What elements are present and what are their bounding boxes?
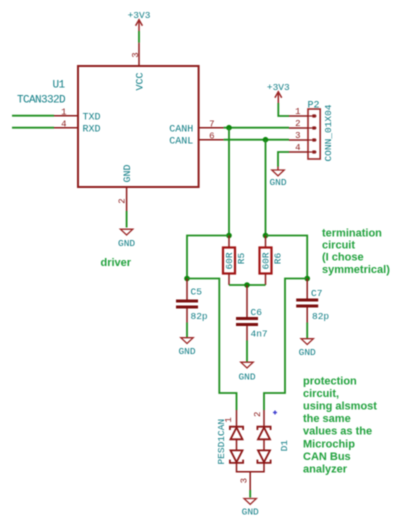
svg-text:C7: C7 (311, 288, 322, 299)
diode D1 PESD1CAN pin 1 lead (224, 410, 237, 426)
svg-text:TXD: TXD (83, 112, 101, 123)
svg-text:the same: the same (303, 413, 351, 425)
wire C5 to GND (186, 323, 188, 338)
power +3V3 (VCC) (128, 10, 151, 31)
svg-text:2: 2 (117, 198, 127, 203)
svg-text:GND: GND (238, 371, 255, 382)
pin 7 CANH (169, 120, 223, 136)
svg-text:CANH: CANH (169, 124, 193, 135)
P2 pin 2 (289, 119, 317, 130)
wire term top right (266, 236, 308, 279)
svg-text:GND: GND (118, 238, 135, 249)
wire C7 to GND (306, 323, 308, 339)
ground C5 (178, 338, 195, 358)
capacitor C5 (176, 279, 208, 323)
pin 3 VCC (131, 43, 147, 91)
svg-text:VCC: VCC (136, 72, 147, 90)
svg-text:CONN_01X04: CONN_01X04 (323, 104, 334, 161)
svg-text:(I chose: (I chose (322, 252, 364, 264)
svg-text:82p: 82p (312, 311, 329, 322)
wire to protection right (264, 279, 307, 411)
P2 pin 3 (289, 131, 317, 142)
ground C7 (299, 339, 316, 359)
svg-text:60R: 60R (224, 252, 235, 269)
svg-text:7: 7 (209, 120, 214, 130)
diode D1 left bottom (zener, cathode down) (230, 450, 243, 463)
svg-text:CANL: CANL (169, 136, 193, 147)
svg-text:analyzer: analyzer (303, 464, 348, 476)
svg-text:2: 2 (253, 412, 263, 417)
label PESD1CAN (216, 419, 227, 465)
svg-text:P2: P2 (308, 100, 320, 111)
svg-text:driver: driver (101, 257, 132, 269)
wire CANH drop (228, 128, 230, 236)
svg-text:protection: protection (303, 375, 357, 387)
svg-text:3: 3 (295, 131, 300, 141)
svg-text:using alsmost: using alsmost (303, 401, 377, 413)
pin 6 CANL (169, 132, 223, 148)
wire D1 right middle (263, 439, 265, 450)
svg-text:2: 2 (295, 119, 300, 129)
junction term right top (263, 233, 269, 239)
svg-text:symmetrical): symmetrical) (322, 264, 390, 276)
svg-text:GND: GND (299, 347, 316, 358)
resistor R6 (260, 236, 284, 286)
junction CANH (226, 125, 232, 131)
svg-text:GND: GND (242, 506, 259, 517)
wire TXD from left (12, 115, 54, 117)
ground U1 (118, 229, 135, 249)
svg-text:values as the: values as the (303, 426, 372, 438)
P2 pin 1 (289, 107, 317, 118)
svg-text:U1: U1 (52, 80, 65, 92)
junction term left top (226, 233, 232, 239)
annotation termination (322, 227, 390, 276)
capacitor C6 (236, 285, 268, 341)
diode D1 left top (zener, cathode up) (230, 427, 243, 440)
svg-text:C5: C5 (191, 287, 203, 298)
svg-text:R6: R6 (272, 253, 283, 265)
svg-text:GND: GND (123, 164, 134, 182)
svg-text:Microchip: Microchip (303, 438, 355, 450)
wire term top left (187, 236, 229, 279)
svg-text:R5: R5 (236, 253, 247, 265)
svg-text:termination: termination (322, 227, 382, 239)
svg-text:1: 1 (61, 108, 66, 118)
IC U1 TCAN332D body (17, 66, 199, 187)
svg-text:60R: 60R (261, 252, 272, 269)
wire D1 left middle (236, 439, 238, 450)
wire C6 to GND (246, 341, 248, 362)
wire D1 to GND (249, 490, 251, 498)
svg-text:circuit,: circuit, (303, 388, 339, 400)
wire CANL to P2 (224, 139, 289, 141)
svg-text:CAN Bus: CAN Bus (303, 451, 351, 463)
annotation driver (101, 257, 132, 269)
diode D1 pin 3 lead (239, 472, 250, 490)
diode D1 PESD1CAN pin 2 lead (253, 410, 264, 426)
capacitor C7 (296, 279, 329, 323)
P2 pin 4 (289, 143, 317, 154)
junction CANL (263, 137, 269, 143)
svg-text:TCAN332D: TCAN332D (17, 95, 66, 107)
svg-text:4n7: 4n7 (251, 328, 268, 339)
junction C5 top (184, 276, 190, 282)
wire VCC (138, 31, 140, 43)
wire R5-R6 bottoms (229, 284, 266, 286)
resistor R5 (223, 236, 247, 286)
svg-text:82p: 82p (191, 311, 208, 322)
svg-text:3: 3 (131, 52, 141, 57)
diode D1 right top (zener, cathode up) (257, 427, 270, 440)
svg-text:GND: GND (178, 346, 195, 357)
svg-text:D1: D1 (279, 440, 290, 452)
wire to protection left (187, 279, 237, 411)
wire P2 pin4 to GND (278, 152, 289, 167)
power +3V3 (P2) (267, 82, 290, 103)
pin 4 RXD (54, 120, 101, 136)
pin 2 GND (117, 164, 134, 211)
no-connect marker (273, 411, 277, 415)
svg-text:6: 6 (209, 132, 214, 142)
svg-text:C6: C6 (251, 307, 263, 318)
ground C6 (238, 362, 255, 382)
svg-text:GND: GND (269, 177, 286, 188)
svg-text:4: 4 (295, 143, 300, 153)
connector P2 CONN_01X04 (308, 100, 335, 161)
ground P2 (269, 167, 286, 189)
label D1 (279, 440, 290, 452)
wire +3V3 to P2 pin1 (278, 103, 289, 116)
svg-text:1: 1 (295, 107, 300, 117)
wire RXD from left (12, 127, 54, 129)
wire CANL drop (265, 140, 267, 236)
svg-text:PESD1CAN: PESD1CAN (216, 419, 227, 465)
annotation protection (303, 375, 377, 475)
pin 1 TXD (54, 108, 101, 124)
wire CANH to P2 (224, 127, 289, 129)
junction C6 top (244, 282, 250, 288)
diode D1 right bottom (zener, cathode down) (257, 450, 270, 463)
junction C7 top (304, 276, 310, 282)
wire D1 bottom join (237, 463, 265, 472)
svg-text:RXD: RXD (83, 124, 101, 135)
svg-text:circuit: circuit (322, 240, 355, 252)
wire chip GND down (126, 211, 128, 228)
svg-text:3: 3 (239, 478, 249, 483)
ground D1 (242, 499, 259, 518)
svg-text:4: 4 (61, 120, 66, 130)
